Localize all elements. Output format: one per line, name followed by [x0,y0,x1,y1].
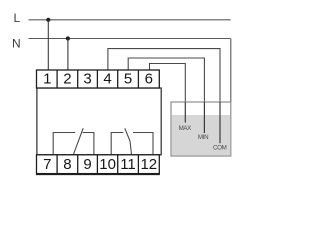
probe COM (re-draw over tank) [219,102,221,143]
wire L line [29,19,231,21]
svg-text:4: 4 [103,71,111,88]
terminal strip bottom (terminals 7-12) [37,155,160,174]
terminal numbers 1-6 [43,71,153,88]
svg-text:10: 10 [99,156,116,173]
terminal numbers 7-12 [43,156,157,173]
relay contact 1 fixed line right (terminal 9) [83,133,94,155]
svg-text:1: 1 [43,71,51,88]
svg-text:MAX: MAX [179,125,192,132]
wire terminal 6 to MAX probe [150,64,186,123]
relay contact 2 fixed line right (terminal 12) [133,133,153,155]
wire N line [29,38,231,40]
svg-text:11: 11 [120,156,136,173]
wire terminal 5 to MIN probe [128,58,204,133]
wire terminal 4 to COM probe [108,49,220,144]
svg-text:N: N [12,36,21,50]
relay body outline [37,88,161,155]
tank container [171,102,231,156]
terminal strip bottom thick lower edge [36,173,160,175]
probe MAX (re-draw over tank) [184,102,186,123]
svg-text:9: 9 [83,156,91,173]
svg-text:2: 2 [63,71,71,88]
svg-text:5: 5 [124,71,132,88]
relay contact 1 fixed line left (terminal 7) [53,133,75,155]
svg-text:3: 3 [83,71,91,88]
terminal strip top (terminals 1-6) [37,70,160,88]
svg-text:COM: COM [213,144,227,151]
wire N to terminal 2 [67,39,69,71]
relay contact 2 moving arm (terminal 11) [125,128,132,155]
svg-text:L: L [14,11,21,25]
svg-text:12: 12 [140,156,157,173]
junction dot on L [46,18,50,22]
svg-text:8: 8 [63,156,71,173]
probe MIN (re-draw over tank) [203,102,205,133]
svg-text:7: 7 [43,156,51,173]
svg-text:6: 6 [145,71,153,88]
wire L to terminal 1 [47,20,49,70]
relay contact 1 moving arm (terminal 8) [73,128,83,155]
svg-text:MIN: MIN [198,134,208,141]
relay contact 2 fixed line left (terminal 10) [111,133,123,155]
wire N line end down to tank [230,39,232,103]
junction dot on N [66,36,70,40]
